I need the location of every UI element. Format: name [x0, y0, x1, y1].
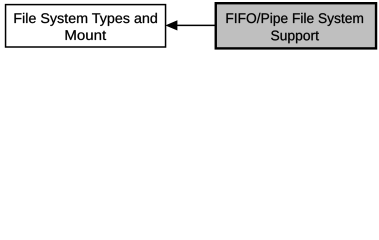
- node box: File System Types and Mount: [6, 5, 166, 47]
- wire: dependency edge shaft: [177, 24, 216, 26]
- label: File System Types and (line 1): [15, 13, 157, 26]
- label: Mount (line 2): [66, 30, 107, 40]
- label: FIFO/Pipe File System (line 1): [227, 13, 364, 26]
- arrowhead pointing left at left box edge: [167, 21, 177, 30]
- node box: FIFO/Pipe File System Support (highlighted): [216, 3, 376, 48]
- label: Support (line 2): [271, 31, 319, 44]
